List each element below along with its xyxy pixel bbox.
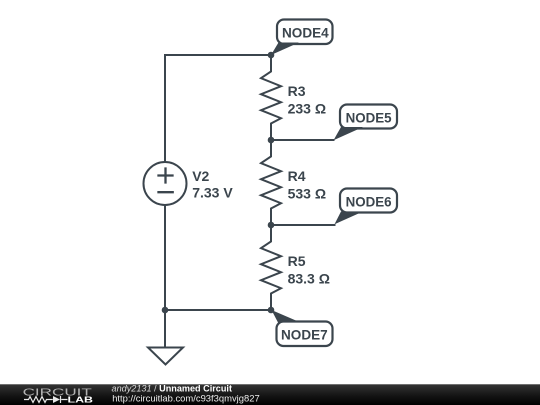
svg-text:R5: R5 bbox=[288, 253, 306, 269]
svg-text:533 Ω: 533 Ω bbox=[288, 186, 326, 202]
svg-text:NODE5: NODE5 bbox=[346, 109, 392, 125]
svg-text:7.33 V: 7.33 V bbox=[192, 185, 233, 201]
svg-text:V2: V2 bbox=[192, 168, 209, 184]
svg-text:http://circuitlab.com/c93f3qmv: http://circuitlab.com/c93f3qmvjg827 bbox=[112, 394, 260, 405]
svg-text:NODE6: NODE6 bbox=[346, 193, 392, 209]
svg-text:NODE4: NODE4 bbox=[282, 25, 329, 41]
svg-text:83.3 Ω: 83.3 Ω bbox=[288, 271, 330, 287]
svg-text:NODE7: NODE7 bbox=[281, 326, 328, 342]
svg-text:233 Ω: 233 Ω bbox=[288, 101, 326, 117]
svg-text:R4: R4 bbox=[288, 168, 306, 184]
svg-text:R3: R3 bbox=[288, 83, 306, 99]
svg-text:LAB: LAB bbox=[68, 395, 94, 405]
